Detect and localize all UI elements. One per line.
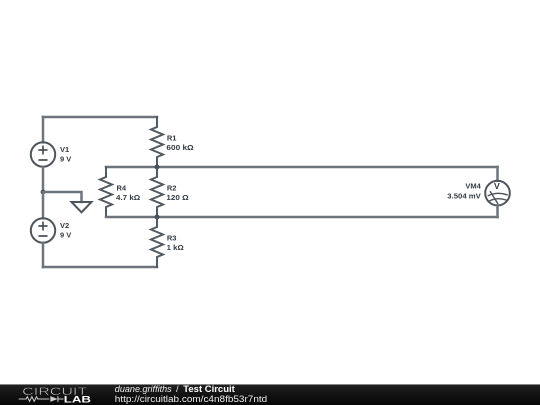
V1 source circle: [31, 142, 55, 166]
wire: top rail from V1 to R1: [43, 116, 157, 119]
voltage source V2: [31, 192, 55, 267]
svg-text:3.504 mV: 3.504 mV: [447, 192, 481, 201]
wire: VM4 top lead: [496, 167, 499, 181]
node: junction of V1, V2 and ground wire: [41, 190, 46, 195]
svg-text:9 V: 9 V: [60, 155, 71, 164]
voltmeter VM4: [485, 167, 510, 217]
svg-text:duane.griffiths: duane.griffiths: [115, 384, 172, 394]
VM4 meter circle: [485, 181, 510, 206]
svg-text:VM4: VM4: [465, 182, 481, 191]
svg-text:V2: V2: [60, 221, 69, 230]
VM4 gauge needle: [490, 192, 497, 204]
svg-text:1 kΩ: 1 kΩ: [167, 243, 184, 252]
wire: V2 top lead: [42, 192, 45, 218]
resistor R4: [100, 167, 112, 217]
resistor R2: [151, 167, 163, 217]
svg-text:LAB: LAB: [64, 395, 92, 405]
footer bar: [0, 384, 540, 405]
logo resistor squiggle and wire: [19, 397, 50, 402]
wire: V1 top lead: [42, 117, 45, 142]
svg-text:R1: R1: [167, 134, 177, 143]
svg-text:9 V: 9 V: [60, 231, 71, 240]
svg-text:4.7 kΩ: 4.7 kΩ: [116, 193, 140, 202]
node: junction R2/R3 on bottom rail: [155, 215, 160, 220]
wire: bottom from V2 to R3: [43, 266, 157, 269]
logo diode: [50, 396, 57, 402]
resistor R3: [151, 217, 163, 267]
svg-text:R2: R2: [167, 184, 177, 193]
svg-text:http://circuitlab.com/c4n8fb53: http://circuitlab.com/c4n8fb53r7ntd: [115, 394, 267, 404]
svg-text:120 Ω: 120 Ω: [166, 193, 188, 202]
V1 plus and minus marks: [39, 146, 46, 160]
wire: V1 bottom lead: [42, 167, 45, 192]
svg-text:600 kΩ: 600 kΩ: [166, 143, 193, 152]
svg-text:V1: V1: [60, 145, 69, 154]
wire: V2 bottom lead: [42, 243, 45, 267]
wire: bottom rail from R4 to voltmeter: [106, 216, 498, 219]
wire: top rail from R4 to voltmeter: [106, 166, 498, 169]
svg-text:Test Circuit: Test Circuit: [183, 384, 235, 394]
node: junction R1/R2 on top rail: [155, 165, 160, 170]
V2 source circle: [31, 218, 55, 242]
svg-text:V: V: [494, 181, 500, 191]
V2 plus and minus marks: [39, 222, 46, 236]
wire: VM4 bottom lead: [496, 205, 499, 217]
resistor R1: [151, 117, 163, 167]
wire: junction to ground symbol: [43, 192, 82, 202]
voltage source V1: [31, 117, 55, 192]
svg-text:R3: R3: [167, 234, 177, 243]
svg-text:R4: R4: [117, 184, 127, 193]
VM4 gauge upper arc: [488, 193, 507, 195]
ground: [72, 202, 92, 212]
VM4 gauge lower arc: [490, 199, 507, 201]
